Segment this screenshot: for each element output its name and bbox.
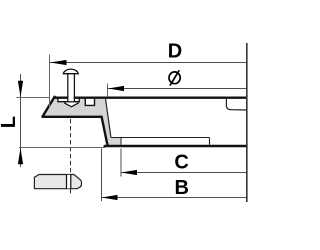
flange step vertical [209,138,211,145]
counterbore seat outline [58,97,79,102]
square hole in flange [85,98,94,105]
profile section body (gray cut material) [42,97,120,147]
top surface thick line [54,96,246,98]
svg-text:C: C [174,152,188,174]
B arrow [102,195,118,200]
svg-text:D: D [168,41,182,63]
bottom thick line [105,145,247,148]
panel hook edge [226,99,246,110]
diameter arrow [108,86,124,91]
L top extension line [16,97,49,99]
B extension vertical [101,149,103,202]
C dimension line [121,172,247,174]
screw shaft [68,74,73,102]
D dimension line [50,62,247,64]
diameter symbol [169,72,180,84]
svg-text:L: L [0,116,20,128]
C extension vertical [120,149,122,177]
lower flange top thin line [111,137,209,139]
diameter extension line [107,84,109,97]
web outer thick line [102,117,108,145]
clip side view body [34,175,81,189]
screw dome head [63,69,78,74]
svg-text:B: B [175,177,189,199]
left slanted edge [43,97,55,116]
clip slot [67,175,70,189]
D arrow [50,60,67,65]
countersink tip chevron [64,103,79,107]
diameter dimension line [108,88,247,90]
L bottom extension line [19,147,106,149]
web inner thin line [105,98,111,138]
flange bottom thick line [42,116,101,118]
C arrow [121,170,137,175]
L down arrow [18,81,23,98]
B dimension line [102,197,247,199]
counterbore hole (white) [58,98,79,101]
L dimension vertical line [20,74,22,167]
right boundary vertical [246,43,248,202]
dashed centerline [70,119,72,194]
D extension line left [49,55,51,108]
section end vertical [120,138,122,145]
L up arrow [18,148,23,165]
